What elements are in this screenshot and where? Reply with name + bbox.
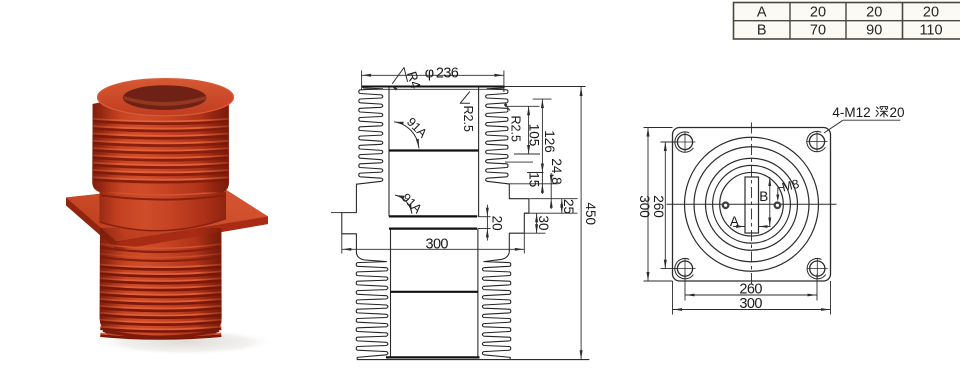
svg-text:110: 110	[919, 23, 942, 39]
svg-text:260: 260	[739, 281, 762, 297]
svg-text:20: 20	[923, 4, 939, 20]
svg-text:20: 20	[810, 4, 826, 20]
svg-text:20: 20	[866, 4, 882, 20]
svg-text:15: 15	[526, 172, 541, 187]
svg-text:105: 105	[527, 124, 542, 147]
svg-text:B: B	[757, 23, 767, 39]
svg-text:R2.5: R2.5	[461, 106, 475, 132]
svg-text:300: 300	[739, 296, 762, 312]
svg-text:450: 450	[583, 202, 598, 225]
svg-text:B: B	[759, 189, 768, 204]
svg-text:A: A	[757, 4, 767, 20]
svg-text:24.8: 24.8	[549, 158, 564, 184]
svg-text:A: A	[730, 214, 739, 229]
svg-text:20: 20	[490, 216, 505, 231]
svg-text:φ 236: φ 236	[425, 65, 459, 81]
svg-text:126: 126	[542, 130, 557, 153]
svg-text:70: 70	[810, 23, 826, 39]
svg-text:300: 300	[637, 195, 652, 218]
svg-text:20: 20	[890, 105, 905, 120]
svg-text:30: 30	[536, 215, 551, 230]
svg-text:25: 25	[561, 199, 576, 214]
svg-text:260: 260	[651, 195, 666, 218]
svg-text:4-M12: 4-M12	[832, 105, 870, 120]
svg-text:300: 300	[425, 236, 448, 252]
svg-text:90: 90	[866, 23, 882, 39]
svg-text:R2.5: R2.5	[508, 116, 522, 142]
